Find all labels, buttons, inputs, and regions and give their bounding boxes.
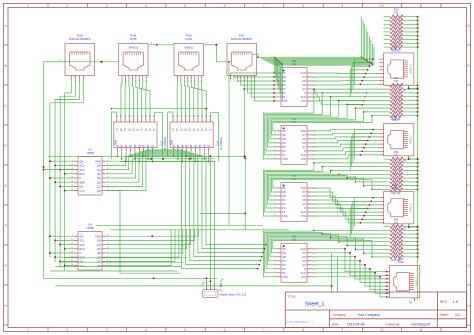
- svg-text:1.0: 1.0: [453, 299, 459, 304]
- power flag +5V near P1: [200, 278, 206, 287]
- svg-text:Q6: Q6: [282, 75, 286, 79]
- wire band over U5 to stack R1 (bus): [252, 17, 374, 65]
- svg-text:P2: P2: [282, 149, 286, 153]
- ic U3: [274, 174, 316, 222]
- svg-text:3: 3: [106, 328, 108, 332]
- ic U2: [274, 235, 316, 283]
- wire bus U9 to central trunk: [106, 230, 198, 266]
- svg-text:1/1: 1/1: [455, 313, 460, 317]
- connector P1 Header-Male-2.54_1x3: [202, 284, 246, 298]
- svg-text:VSS: VSS: [282, 157, 288, 161]
- wire bus jack J2 to stack R3: [350, 130, 373, 171]
- svg-text:P5: P5: [282, 186, 286, 190]
- svg-text:3C: 3C: [181, 128, 183, 131]
- svg-text:P5: P5: [303, 141, 307, 145]
- svg-text:QC: QC: [97, 260, 101, 264]
- svg-text:P6: P6: [303, 194, 307, 198]
- svg-text:6C: 6C: [138, 128, 140, 131]
- connector PU8 RJ45: [119, 33, 149, 83]
- wire bus jack J1 to stack R2: [350, 58, 374, 97]
- svg-text:U11: U11: [216, 140, 220, 145]
- resistor network stack R3x (8x pull-up resistors): [384, 151, 419, 195]
- svg-text:4: 4: [145, 4, 147, 8]
- svg-text:2: 2: [66, 4, 68, 8]
- svg-text:P4: P4: [282, 198, 286, 202]
- svg-text:Sheet_1: Sheet_1: [305, 302, 324, 308]
- svg-text:F: F: [5, 224, 7, 228]
- svg-text:QH: QH: [97, 239, 101, 243]
- svg-text:VDD: VDD: [300, 186, 306, 190]
- svg-text:Q8: Q8: [282, 194, 286, 198]
- svg-text:8B: 8B: [148, 144, 150, 147]
- svg-text:P1: P1: [220, 289, 224, 293]
- svg-text:RJ45: RJ45: [392, 186, 399, 190]
- svg-text:UserSupport: UserSupport: [411, 322, 430, 326]
- svg-text:5C: 5C: [133, 128, 135, 131]
- connector PU6 DS1133-S40BPX: [65, 33, 95, 83]
- svg-text:P5: P5: [282, 71, 286, 75]
- wire U5 left pins risers to band: [274, 57, 283, 101]
- svg-text:GND: GND: [172, 140, 174, 145]
- wire left trunk bottom runs: [44, 258, 332, 286]
- svg-text:1B: 1B: [174, 144, 176, 147]
- wire bus PU8 to U10: [121, 79, 150, 118]
- svg-text:lceda.cn/UserSupport --------: lceda.cn/UserSupport --------: [287, 321, 315, 324]
- svg-text:SHIELD: SHIELD: [410, 203, 413, 212]
- svg-text:Q8: Q8: [282, 137, 286, 141]
- svg-text:5B: 5B: [135, 144, 137, 147]
- svg-text:7: 7: [263, 328, 265, 332]
- svg-text:1C: 1C: [150, 128, 152, 131]
- svg-text:B: B: [5, 64, 7, 68]
- wire jack shield stubs to collector with junctions: [408, 87, 419, 301]
- svg-text:1B: 1B: [117, 144, 119, 147]
- svg-text:GND: GND: [95, 234, 101, 238]
- svg-text:DS1133-S40BPX: DS1133-S40BPX: [69, 37, 91, 41]
- svg-text:P5: P5: [303, 83, 307, 87]
- svg-text:Q7: Q7: [302, 145, 306, 149]
- svg-text:2: 2: [66, 328, 68, 332]
- svg-text:SER: SER: [79, 180, 85, 184]
- svg-text:5: 5: [184, 4, 186, 8]
- svg-text:P5: P5: [282, 129, 286, 133]
- svg-text:7B: 7B: [200, 144, 202, 147]
- resistor network stack R2x (8x pull-up resistors): [384, 77, 419, 121]
- svg-text:2C: 2C: [210, 128, 212, 131]
- svg-text:RJ45: RJ45: [392, 118, 399, 122]
- svg-text:P7: P7: [303, 190, 307, 194]
- svg-text:P2: P2: [282, 91, 286, 95]
- svg-text:QA: QA: [79, 260, 83, 264]
- connector PU7 DS1133-S40BPX: [227, 33, 257, 83]
- svg-text:Sheet:: Sheet:: [440, 313, 449, 317]
- svg-text:SHIELD: SHIELD: [184, 46, 193, 50]
- wire long horizontals mid: [96, 213, 289, 229]
- svg-text:E: E: [5, 184, 7, 188]
- svg-text:VCC: VCC: [79, 264, 85, 268]
- svg-text:2B: 2B: [122, 144, 124, 147]
- svg-text:SER: SER: [79, 255, 85, 259]
- svg-text:6C: 6C: [194, 128, 196, 131]
- svg-text:Date:: Date:: [332, 322, 340, 326]
- connector PU2 RJ45 jack J2: [379, 115, 414, 163]
- svg-text:10: 10: [380, 328, 384, 332]
- svg-text:74595: 74595: [86, 226, 94, 230]
- svg-text:S: S: [304, 149, 306, 153]
- svg-text:RJ45: RJ45: [130, 37, 137, 41]
- wire net rail across top connectors: [44, 43, 228, 63]
- svg-text:QE: QE: [97, 176, 101, 180]
- svg-text:1C: 1C: [117, 128, 119, 131]
- svg-text:REV: REV: [440, 300, 448, 304]
- wire bus U5 to jack J1: [312, 73, 380, 106]
- svg-text:SHIELD: SHIELD: [410, 135, 413, 144]
- svg-text:SHIELD: SHIELD: [410, 64, 413, 73]
- svg-text:S: S: [304, 206, 306, 210]
- svg-text:6: 6: [224, 4, 226, 8]
- svg-text:1: 1: [27, 328, 29, 332]
- wire verticals near title block: [331, 253, 338, 292]
- svg-text:4: 4: [145, 328, 147, 332]
- svg-text:1B: 1B: [153, 144, 155, 147]
- wire U10 outputs to lower rails: [116, 152, 153, 162]
- wire bus U4 loops to stack R2: [312, 88, 384, 122]
- wire loop bus around U4 left: [263, 113, 311, 159]
- svg-text:S: S: [304, 267, 306, 271]
- svg-text:R39 102: R39 102: [391, 192, 401, 195]
- svg-text:VSS: VSS: [282, 214, 288, 218]
- svg-text:QA: QA: [79, 185, 83, 189]
- wire bus PU6 to left trunk: [44, 62, 84, 278]
- wire stubs left trunk to U9 pins with junctions: [43, 166, 74, 266]
- svg-text:7C: 7C: [142, 128, 144, 131]
- svg-text:P2: P2: [282, 206, 286, 210]
- wire +V collector vertical right: [417, 17, 419, 300]
- wire loop bus around U2 left: [263, 231, 311, 277]
- svg-text:8C: 8C: [146, 128, 148, 131]
- svg-text:SCK: SCK: [79, 168, 85, 172]
- svg-text:RJ45: RJ45: [392, 47, 399, 51]
- svg-text:Drawn By:: Drawn By:: [386, 322, 401, 326]
- svg-text:P5: P5: [303, 198, 307, 202]
- svg-text:4B: 4B: [131, 144, 133, 147]
- svg-text:5C: 5C: [190, 128, 192, 131]
- svg-text:3: 3: [106, 4, 108, 8]
- svg-text:6B: 6B: [139, 144, 141, 147]
- svg-text:SCL: SCL: [79, 164, 85, 168]
- svg-text:G: G: [79, 251, 81, 255]
- svg-text:11: 11: [419, 328, 423, 332]
- ic U10 ULN2803A: [114, 116, 167, 155]
- wire U7 SCK stub to far left trunk: [43, 169, 74, 171]
- svg-text:CLK: CLK: [301, 153, 306, 157]
- ic U11 ULN2803A: [170, 116, 223, 155]
- svg-text:P1: P1: [282, 95, 286, 99]
- svg-text:7: 7: [263, 4, 265, 8]
- ic U9 74595: [71, 223, 109, 271]
- svg-text:5B: 5B: [191, 144, 193, 147]
- svg-text:CLK: CLK: [301, 271, 306, 275]
- svg-text:2019-04-08: 2019-04-08: [347, 322, 364, 326]
- svg-text:P3: P3: [282, 202, 286, 206]
- svg-text:11: 11: [419, 4, 423, 8]
- svg-text:GND: GND: [115, 140, 117, 145]
- wire stubs left trunk to U7 pins with junctions: [49, 160, 74, 191]
- svg-text:P7: P7: [303, 251, 307, 255]
- svg-text:P4: P4: [282, 83, 286, 87]
- svg-text:1B: 1B: [209, 144, 211, 147]
- svg-text:Q7: Q7: [302, 263, 306, 267]
- svg-text:Your Company: Your Company: [358, 313, 381, 317]
- svg-text:SHIELD: SHIELD: [416, 277, 419, 286]
- svg-text:P3: P3: [282, 87, 286, 91]
- wire rail into U11 spare pin: [111, 108, 207, 118]
- svg-text:2B: 2B: [178, 144, 180, 147]
- svg-text:4C: 4C: [129, 128, 131, 131]
- svg-text:4B: 4B: [187, 144, 189, 147]
- svg-text:P/S: P/S: [301, 275, 306, 279]
- svg-text:S: S: [304, 91, 306, 95]
- svg-text:1C: 1C: [173, 128, 175, 131]
- svg-text:P7: P7: [303, 75, 307, 79]
- svg-text:VCC: VCC: [79, 189, 85, 193]
- svg-text:8: 8: [302, 328, 304, 332]
- svg-text:Q7: Q7: [302, 202, 306, 206]
- svg-text:Company:: Company:: [332, 313, 347, 317]
- svg-text:7B: 7B: [144, 144, 146, 147]
- svg-text:RJ45: RJ45: [398, 260, 405, 264]
- svg-text:P3: P3: [282, 263, 286, 267]
- svg-text:Q8: Q8: [282, 255, 286, 259]
- wire bus U2 to jack J4: [312, 248, 388, 298]
- power flag VCC near P1: [219, 276, 225, 287]
- svg-text:RCK: RCK: [79, 247, 85, 251]
- wire bus U4 to jack J2: [312, 129, 380, 159]
- wire U10/U11 spare input risers: [112, 112, 219, 162]
- svg-text:Q7: Q7: [302, 87, 306, 91]
- svg-text:P6: P6: [303, 79, 307, 83]
- svg-text:P/S: P/S: [301, 157, 306, 161]
- svg-text:QF: QF: [97, 247, 101, 251]
- resistor network stack R4x (8x pull-up resistors): [384, 218, 419, 262]
- svg-text:F: F: [468, 224, 470, 228]
- svg-text:G: G: [79, 176, 81, 180]
- svg-text:8B: 8B: [204, 144, 206, 147]
- svg-text:3B: 3B: [126, 144, 128, 147]
- svg-text:SCL: SCL: [79, 239, 85, 243]
- svg-text:5: 5: [184, 328, 186, 332]
- svg-text:6: 6: [224, 328, 226, 332]
- svg-text:8: 8: [302, 4, 304, 8]
- svg-text:P2: P2: [282, 267, 286, 271]
- svg-text:Q6: Q6: [282, 251, 286, 255]
- svg-text:QB: QB: [97, 264, 101, 268]
- wire loop bus around U3 left: [263, 170, 311, 216]
- svg-text:Q6: Q6: [282, 190, 286, 194]
- svg-text:2C: 2C: [121, 128, 123, 131]
- wire bus U3 loops to stack R3: [312, 162, 384, 190]
- svg-text:QD: QD: [97, 255, 101, 259]
- svg-text:QH': QH': [79, 159, 84, 163]
- svg-text:P7: P7: [303, 133, 307, 137]
- svg-text:1: 1: [27, 4, 29, 8]
- svg-text:E: E: [467, 184, 469, 188]
- svg-text:P5: P5: [282, 247, 286, 251]
- svg-text:7C: 7C: [198, 128, 200, 131]
- svg-text:P6: P6: [303, 137, 307, 141]
- svg-text:10: 10: [380, 4, 384, 8]
- svg-text:P6: P6: [303, 255, 307, 259]
- connector PU9 RJ45: [174, 33, 204, 83]
- svg-text:P/S: P/S: [301, 99, 306, 103]
- ic U5: [274, 59, 316, 107]
- svg-text:QE: QE: [97, 251, 101, 255]
- svg-text:QG: QG: [97, 243, 101, 247]
- svg-text:QH': QH': [79, 234, 84, 238]
- wire bus PU7 to U5 inputs: [228, 61, 276, 225]
- svg-text:GND: GND: [95, 159, 101, 163]
- svg-text:CLK: CLK: [301, 210, 306, 214]
- svg-text:P1: P1: [282, 210, 286, 214]
- wire bus U7 to central trunk: [106, 150, 267, 273]
- ic U4: [274, 117, 316, 165]
- svg-text:P/S: P/S: [301, 214, 306, 218]
- svg-text:P1: P1: [282, 153, 286, 157]
- svg-text:VSS: VSS: [282, 275, 288, 279]
- svg-text:102: 102: [394, 80, 399, 83]
- resistor network stack R1x (8x pull-up resistors): [384, 9, 419, 53]
- ic U7 74595: [71, 148, 109, 196]
- svg-text:VDD: VDD: [300, 247, 306, 251]
- connector PU1 RJ45 jack J1: [379, 44, 414, 92]
- svg-text:RCK: RCK: [79, 172, 85, 176]
- svg-text:QD: QD: [97, 180, 101, 184]
- svg-text:VDD: VDD: [300, 71, 306, 75]
- svg-text:P5: P5: [303, 259, 307, 263]
- svg-text:TITLE:: TITLE:: [287, 295, 296, 299]
- svg-text:74595: 74595: [86, 151, 94, 155]
- svg-text:ULN2803A: ULN2803A: [219, 137, 223, 150]
- svg-text:P4: P4: [282, 259, 286, 263]
- svg-text:3B: 3B: [182, 144, 184, 147]
- svg-text:102: 102: [394, 12, 399, 15]
- connector PU3 RJ45 jack J3: [379, 183, 414, 231]
- wire bus U2 loops to stack R4: [312, 230, 384, 258]
- svg-text:DS1133-S40BPX: DS1133-S40BPX: [231, 37, 253, 41]
- svg-text:P1: P1: [282, 271, 286, 275]
- svg-text:SCK: SCK: [79, 243, 85, 247]
- svg-text:QC: QC: [97, 185, 101, 189]
- svg-text:QF: QF: [97, 172, 101, 176]
- svg-text:1C: 1C: [206, 128, 208, 131]
- svg-text:VDD: VDD: [300, 129, 306, 133]
- svg-text:3C: 3C: [125, 128, 127, 131]
- svg-text:4C: 4C: [185, 128, 187, 131]
- svg-text:P3: P3: [282, 145, 286, 149]
- wire lower rails under ULN chips: [48, 155, 246, 161]
- svg-text:P4: P4: [282, 141, 286, 145]
- svg-text:QB: QB: [97, 189, 101, 193]
- svg-text:Q8: Q8: [282, 79, 286, 83]
- svg-text:9: 9: [342, 4, 344, 8]
- svg-text:VSS: VSS: [282, 99, 288, 103]
- svg-text:Header-Male-2.54_1x3: Header-Male-2.54_1x3: [220, 292, 247, 296]
- svg-text:ULN2803A: ULN2803A: [163, 137, 167, 150]
- svg-text:6B: 6B: [196, 144, 198, 147]
- svg-text:9: 9: [342, 328, 344, 332]
- svg-text:SHIELD: SHIELD: [129, 46, 138, 50]
- svg-text:8C: 8C: [202, 128, 204, 131]
- svg-text:CLK: CLK: [301, 95, 306, 99]
- wire trunk verticals to P1: [206, 157, 246, 289]
- svg-text:B: B: [467, 64, 469, 68]
- svg-text:2C: 2C: [154, 128, 156, 131]
- svg-text:QG: QG: [97, 168, 101, 172]
- svg-text:2C: 2C: [177, 128, 179, 131]
- connector PU4 RJ45 jack J4: [385, 257, 420, 305]
- svg-text:QH: QH: [97, 164, 101, 168]
- wire U11 outputs to lower rails: [173, 152, 210, 162]
- wire bus jack J3 to stack R4: [350, 198, 373, 238]
- svg-text:RJ45: RJ45: [185, 37, 192, 41]
- title block: [285, 292, 466, 328]
- wire bus PU9 to U11: [177, 79, 206, 118]
- svg-text:Q6: Q6: [282, 133, 286, 137]
- wire bus U3 to jack J3: [312, 188, 380, 224]
